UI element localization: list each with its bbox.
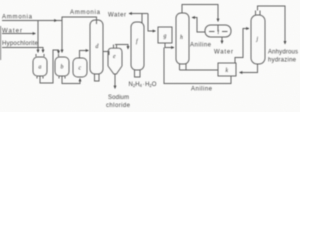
scan artifact left edge: [0, 26, 2, 60]
drum i: [205, 25, 231, 37]
vessel a: [33, 57, 47, 76]
wire g bottom to column h: [165, 43, 174, 48]
wire j product line: [258, 6, 286, 44]
column j top neck: [256, 11, 261, 16]
wire h bottoms to box k: [180, 69, 219, 71]
wire d to e: [103, 52, 109, 56]
wire e top to column f: [115, 45, 128, 50]
column f bottom U-loop: [135, 70, 141, 78]
wire ammonia feed line: [2, 20, 62, 22]
column e body: [108, 48, 122, 66]
wire water feed arrow: [2, 33, 36, 35]
wire a bottom to b top: [40, 50, 59, 83]
column d: [90, 20, 103, 74]
column d bottom U-loop: [95, 74, 100, 82]
column f: [131, 22, 144, 70]
wire sodium chloride outlet: [114, 74, 116, 89]
vessel c: [73, 58, 87, 77]
wire i water outlet: [221, 37, 223, 44]
wire k to column j feed: [235, 29, 249, 64]
vessel a bottom stub: [37, 77, 43, 79]
column e cone bottom: [108, 66, 122, 74]
vessel b: [55, 57, 69, 76]
wire aniline recycle: [164, 48, 231, 84]
wire f top water out: [129, 14, 142, 24]
wire recycle down into b: [61, 21, 63, 53]
wire f overhead to box g: [142, 14, 156, 32]
wire h overhead to drum i: [182, 5, 218, 22]
vessel b bottom stub: [59, 77, 65, 79]
wire c top to column d: [80, 51, 89, 59]
column e top neck: [114, 45, 117, 49]
column h bottom U-loop: [180, 64, 187, 71]
wire b bottom to c bottom: [62, 76, 80, 84]
vessel a top neck: [36, 54, 44, 57]
vessel b top neck: [58, 54, 60, 57]
wire j bottoms to k: [240, 64, 258, 73]
drum i internals: [209, 25, 228, 32]
box k: [218, 63, 236, 76]
wire hypochlorite feed: [2, 48, 43, 53]
wire ammonia recycle from column d top: [62, 17, 97, 24]
wire ammonia branch down into a: [37, 21, 39, 53]
wire ammonia junction arrow: [52, 20, 57, 22]
column h: [176, 13, 189, 64]
box g: [158, 27, 172, 43]
column j: [251, 15, 265, 64]
wire i reflux to h: [192, 18, 205, 33]
